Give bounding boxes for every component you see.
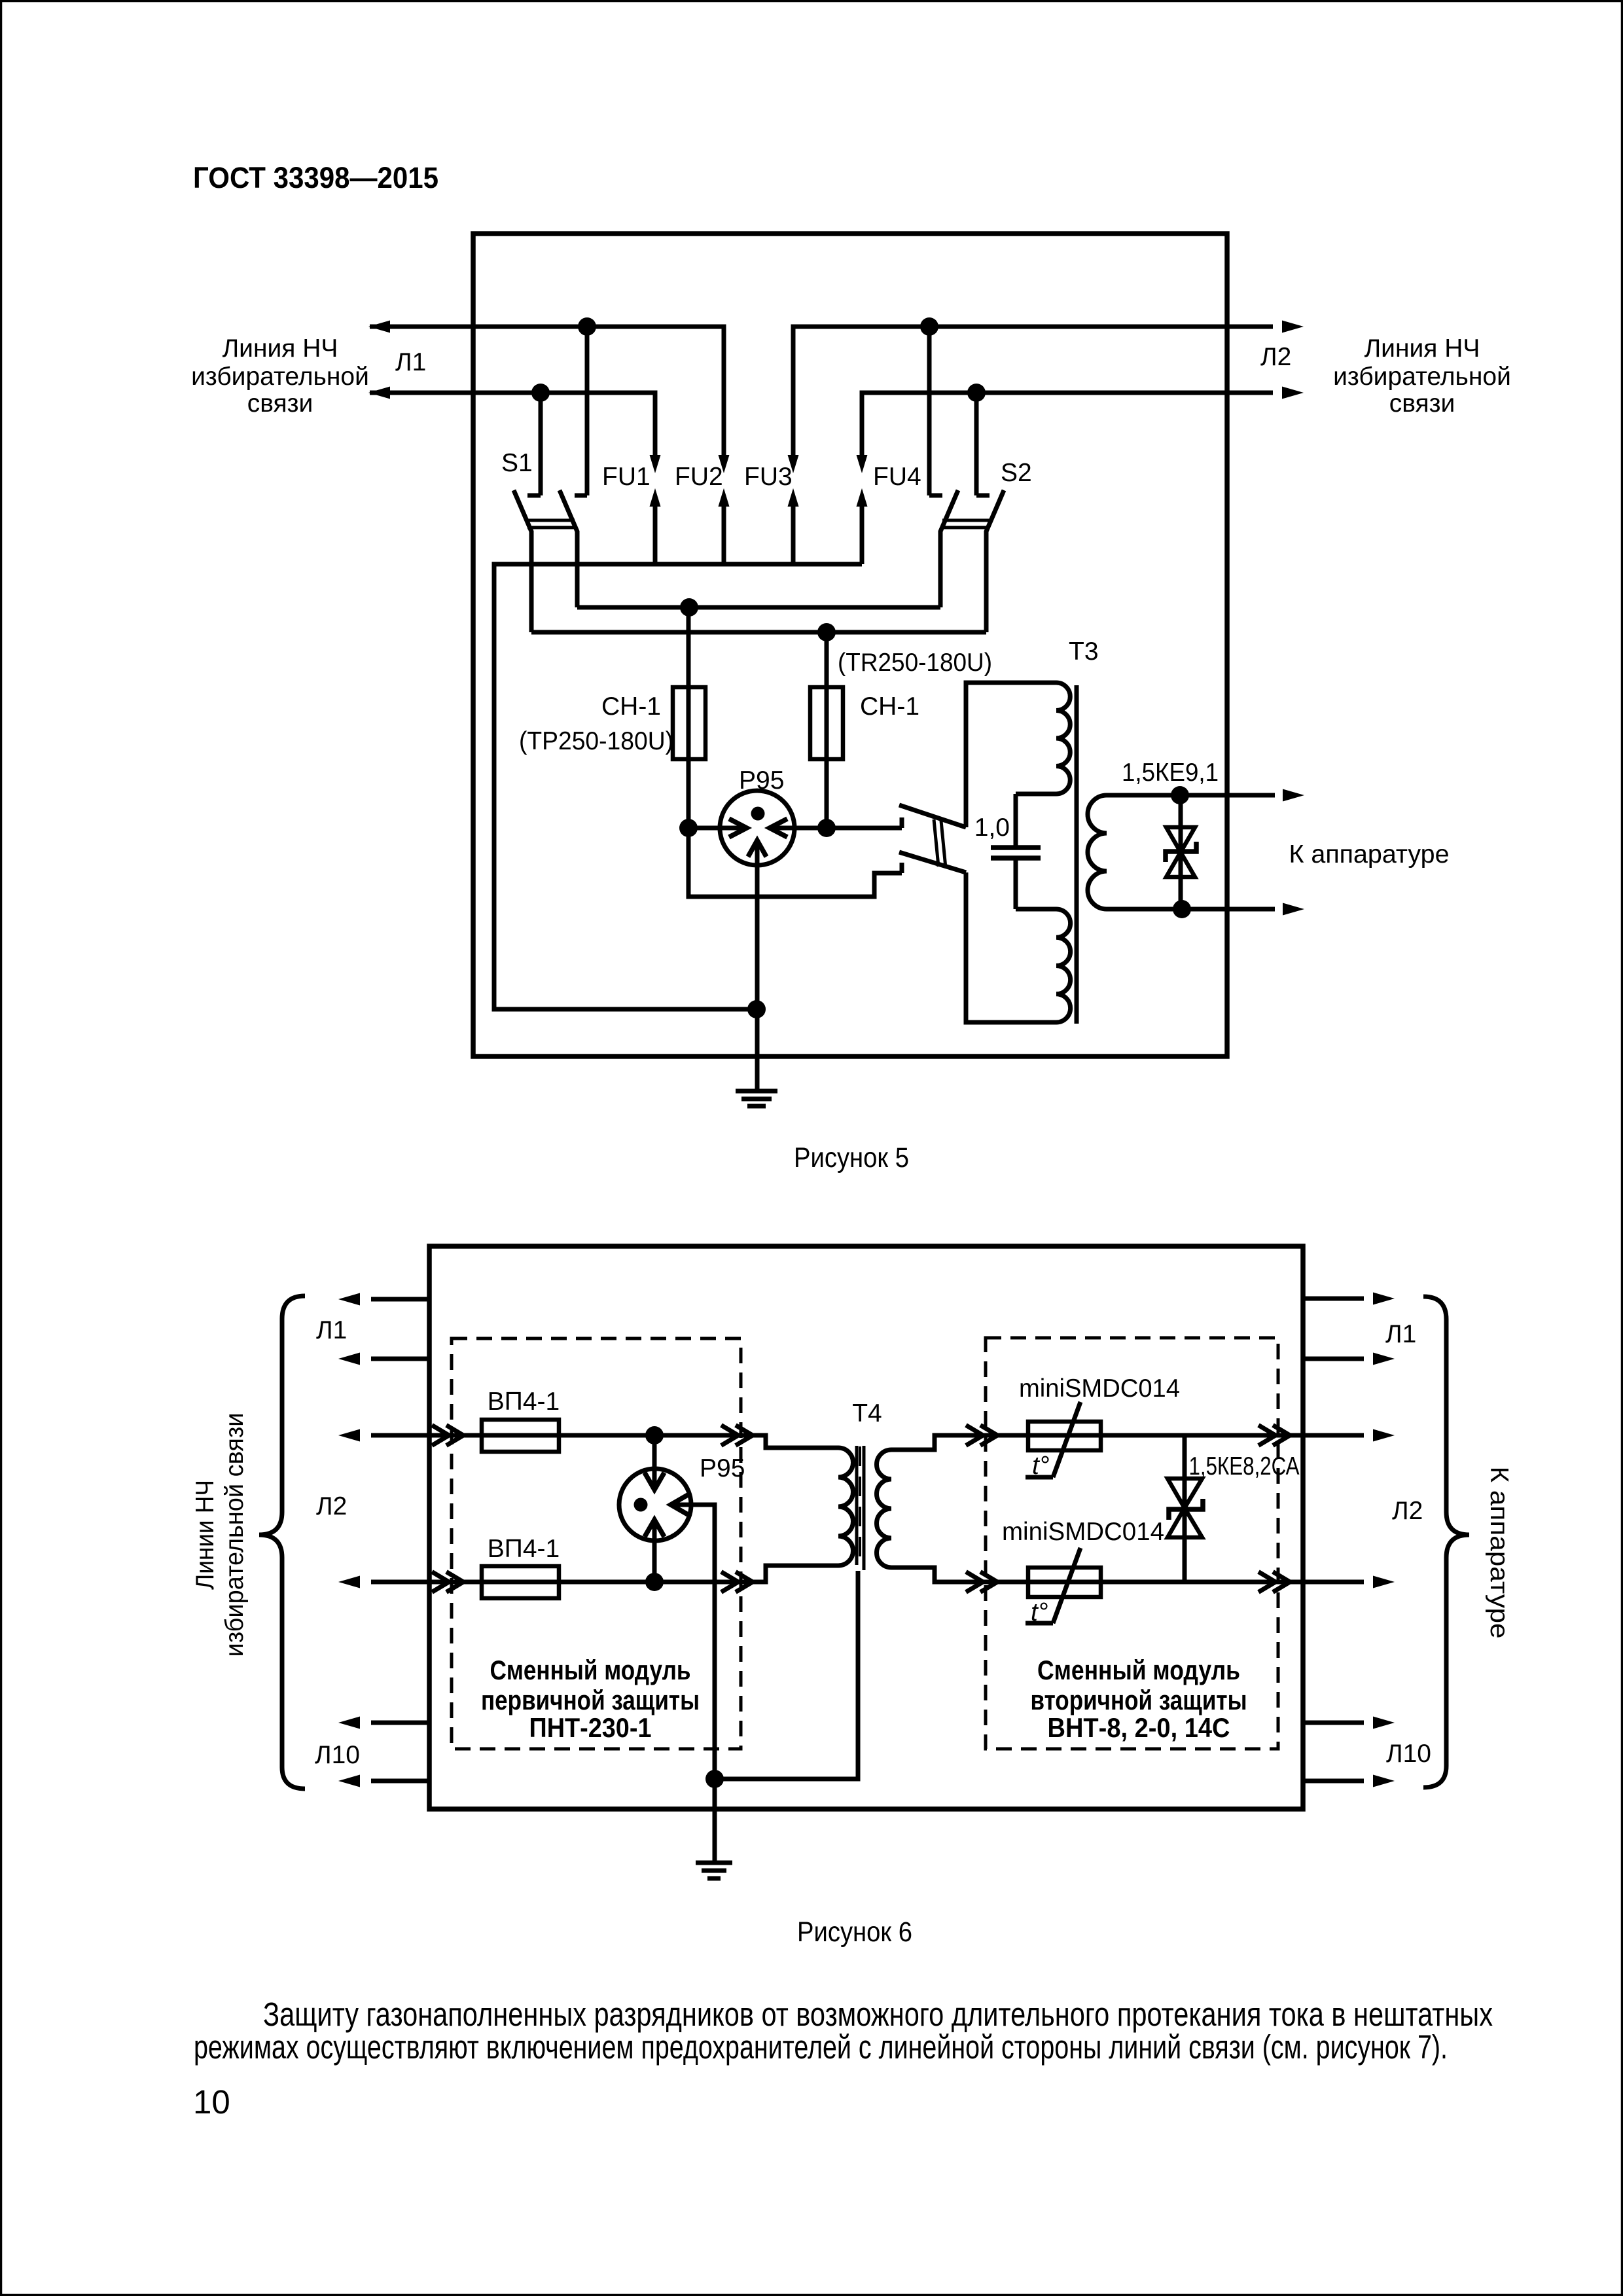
svg-text:избирательной: избирательной [191,363,369,391]
svg-text:избирательной: избирательной [1333,363,1511,391]
svg-text:Линия НЧ: Линия НЧ [1364,334,1480,363]
svg-text:(ТР250-180U): (ТР250-180U) [519,727,673,755]
svg-text:ГОСТ 33398—2015: ГОСТ 33398—2015 [193,161,438,194]
svg-text:Рисунок 5: Рисунок 5 [794,1142,909,1174]
svg-text:Сменный модуль: Сменный модуль [490,1655,691,1685]
svg-text:Р95: Р95 [739,766,784,795]
svg-text:К аппаратуре: К аппаратуре [1289,840,1450,869]
svg-text:Рисунок 6: Рисунок 6 [797,1916,912,1948]
svg-text:Р95: Р95 [700,1454,745,1482]
svg-text:FU1: FU1 [602,463,651,491]
svg-text:Л2: Л2 [1392,1497,1423,1525]
svg-text:связи: связи [247,389,313,418]
svg-text:miniSMDC014: miniSMDC014 [1002,1518,1164,1546]
svg-text:(TR250-180U): (TR250-180U) [838,649,992,677]
svg-text:Л1: Л1 [316,1316,347,1344]
svg-text:Т3: Т3 [1069,637,1099,666]
svg-text:Л10: Л10 [315,1741,360,1769]
svg-text:S1: S1 [501,449,533,477]
svg-text:1,5КЕ8,2СА: 1,5КЕ8,2СА [1189,1452,1300,1480]
svg-text:Л2: Л2 [316,1492,347,1520]
svg-text:Линии НЧ: Линии НЧ [191,1480,219,1590]
svg-text:К аппаратуре: К аппаратуре [1485,1467,1513,1639]
svg-text:Л1: Л1 [395,348,426,376]
svg-text:Линия НЧ: Линия НЧ [223,334,338,363]
svg-text:вторичной защиты: вторичной защиты [1031,1685,1247,1715]
svg-text:СН-1: СН-1 [860,692,919,721]
svg-text:1,5КЕ9,1: 1,5КЕ9,1 [1122,759,1219,787]
svg-text:ВНТ-8, 2-0, 14С: ВНТ-8, 2-0, 14С [1048,1712,1230,1743]
svg-text:Л10: Л10 [1386,1740,1431,1768]
svg-text:FU4: FU4 [873,463,921,491]
svg-text:FU2: FU2 [675,463,723,491]
svg-text:Л1: Л1 [1385,1320,1416,1348]
svg-text:ВП4-1: ВП4-1 [488,1388,560,1416]
svg-text:Защиту газонаполненных разрядн: Защиту газонаполненных разрядников от во… [263,1996,1493,2033]
svg-text:miniSMDC014: miniSMDC014 [1019,1374,1180,1403]
svg-text:FU3: FU3 [744,463,793,491]
svg-text:1,0: 1,0 [974,814,1010,842]
svg-text:ВП4-1: ВП4-1 [488,1535,560,1563]
svg-text:ПНТ-230-1: ПНТ-230-1 [529,1712,652,1743]
svg-text:S2: S2 [1001,459,1032,487]
svg-text:первичной защиты: первичной защиты [481,1685,700,1715]
svg-text:t°: t° [1032,1452,1049,1480]
svg-text:избирательной связи: избирательной связи [221,1413,249,1657]
svg-text:связи: связи [1389,389,1455,418]
svg-text:Л2: Л2 [1260,343,1291,371]
svg-text:t°: t° [1031,1598,1048,1626]
svg-text:режимах осуществляют включение: режимах осуществляют включением предохра… [194,2028,1448,2066]
svg-text:Т4: Т4 [852,1399,882,1427]
svg-text:СН-1: СН-1 [601,692,661,721]
svg-text:Сменный модуль: Сменный модуль [1037,1655,1240,1685]
svg-text:10: 10 [193,2083,230,2121]
